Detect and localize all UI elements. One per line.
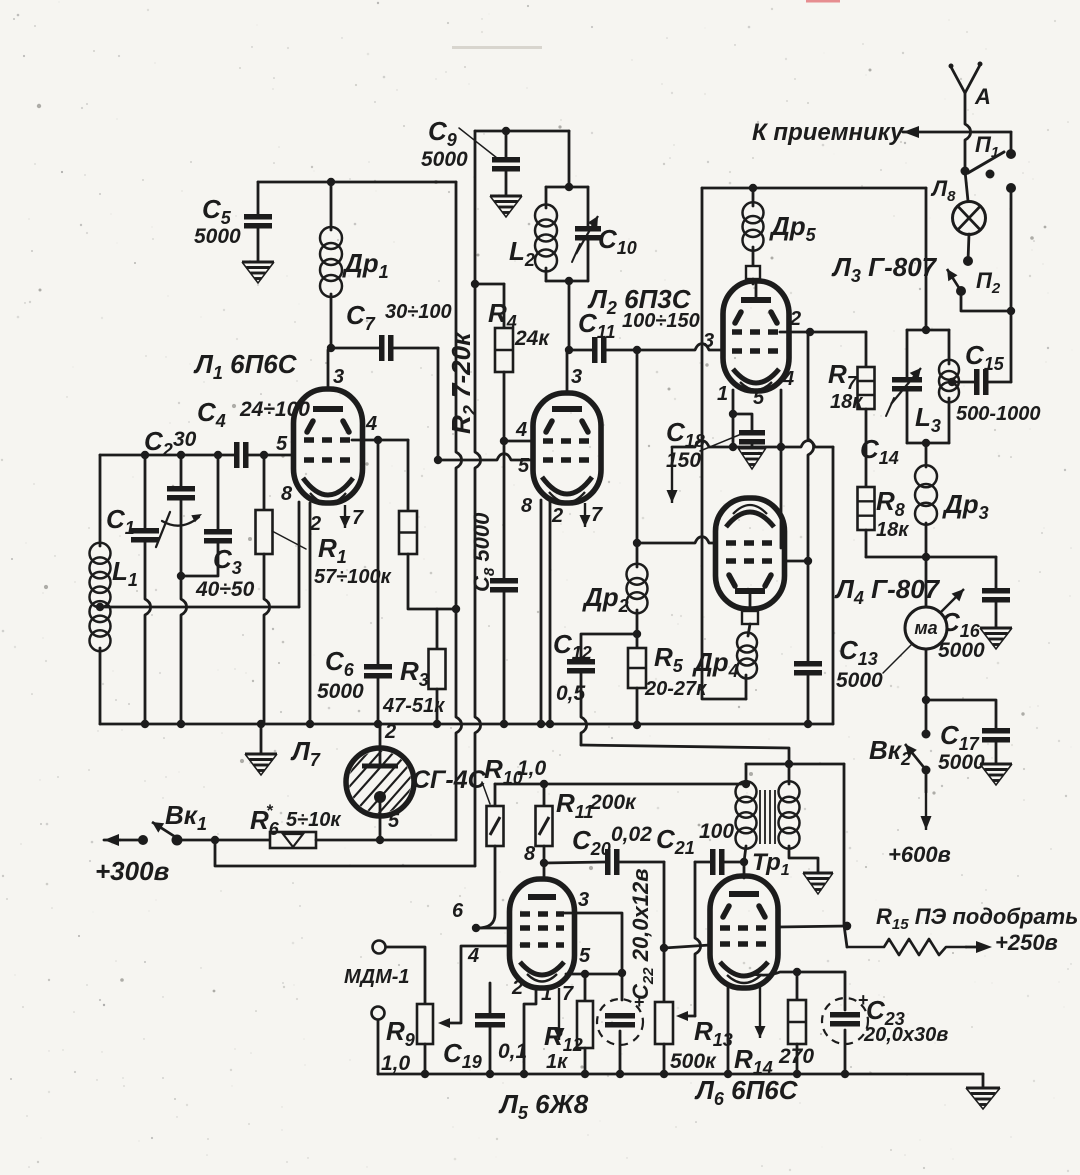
wire B+ riser x844 (844, 764, 847, 947)
grid2 wire Л4 (784, 560, 808, 563)
pin 2 wire Л2 (549, 502, 552, 724)
resistor R15 zigzag (847, 939, 966, 955)
ground (980, 763, 1012, 766)
grid bus Л1 (100, 454, 234, 457)
svg-text:0,5: 0,5 (556, 682, 586, 705)
svg-text:4: 4 (515, 419, 527, 441)
audio ground bus (378, 1073, 983, 1076)
svg-text:40÷50: 40÷50 (195, 578, 255, 601)
tube Л7 СГ-4С (379, 724, 382, 749)
wire R7-R8 (865, 409, 868, 487)
svg-text:6: 6 (452, 900, 464, 922)
node R2/R3 junction (452, 605, 460, 613)
svg-text:+600в: +600в (888, 842, 951, 867)
svg-text:А: А (974, 84, 991, 109)
svg-text:1: 1 (541, 983, 552, 1005)
cathode mid bus (100, 606, 299, 609)
coil L1 (99, 455, 102, 546)
svg-text:2: 2 (511, 977, 523, 999)
ground (260, 724, 263, 754)
capacitor C20 (544, 862, 605, 863)
svg-text:24к: 24к (514, 327, 550, 350)
pin4 wire Л3 to Л4 (780, 390, 783, 548)
tube Л2 6П3С (533, 393, 601, 503)
tube Л3 Г-807 (723, 281, 789, 391)
svg-text:3: 3 (571, 366, 582, 388)
svg-text:7: 7 (562, 983, 574, 1005)
secondary to ground (789, 846, 818, 873)
capacitor C7 (331, 347, 379, 350)
svg-text:МДМ-1: МДМ-1 (344, 966, 410, 988)
svg-text:СГ-4С: СГ-4С (412, 766, 487, 794)
switch П1 (961, 167, 970, 176)
svg-text:+300в: +300в (95, 856, 170, 886)
capacitor C3 (217, 455, 220, 529)
grid input wire Л5 (444, 946, 510, 1023)
svg-text:4: 4 (467, 945, 479, 967)
capacitor C18 (739, 430, 765, 436)
screen line x808 upper (808, 332, 814, 661)
wire R4 jog (475, 283, 504, 286)
svg-text:Л6 6П6С: Л6 6П6С (694, 1075, 799, 1109)
svg-text:2: 2 (551, 505, 563, 527)
wire Вк1 to R6 (177, 839, 270, 842)
wire Л4 anode feed x702 (702, 188, 746, 699)
cathode wire Л5 (566, 973, 622, 976)
svg-text:5000: 5000 (317, 680, 364, 703)
svg-text:18к: 18к (830, 391, 863, 413)
wire to ground (982, 1074, 985, 1088)
capacitor C11 (569, 349, 592, 352)
capacitor C21 (695, 861, 710, 864)
wire pin6 Л5 (476, 927, 510, 930)
resistor R10 1.0 (494, 784, 497, 806)
svg-text:1к: 1к (546, 1051, 568, 1073)
ground (966, 1087, 1000, 1090)
svg-text:1,0: 1,0 (517, 757, 547, 780)
choke Др1 (330, 182, 333, 230)
node L3 tap (948, 378, 956, 386)
plate supply rail y188 (702, 187, 926, 190)
grid wire Л6 (664, 945, 710, 948)
screen wire Л6 (778, 926, 847, 927)
svg-text:30: 30 (173, 428, 197, 451)
svg-text:2: 2 (384, 721, 396, 743)
wire П2 to C15 branch (961, 291, 1011, 311)
svg-text:3: 3 (578, 889, 589, 911)
pins 1/5 Л3 to C18 (732, 390, 735, 447)
svg-text:1,0: 1,0 (381, 1052, 411, 1075)
choke Др5 (752, 188, 755, 206)
tube Л6 6П6С (743, 862, 746, 878)
pins 1-2 wire Л5 (524, 988, 536, 1074)
+600в feed arrow (925, 770, 928, 792)
lamp Л8 (965, 171, 968, 201)
Тр1 B+ rail (746, 763, 844, 766)
node Др2/R5/C12 (633, 630, 641, 638)
wire C5/Др1 top feed (258, 181, 456, 184)
capacitor C12 (581, 634, 637, 659)
node L1 tap (96, 603, 104, 611)
C10 tuning arrow (576, 216, 598, 254)
electrolytic C22 (621, 973, 624, 1000)
choke Др4 (748, 624, 750, 636)
pin 8 wire Л2 (540, 500, 543, 724)
svg-text:150: 150 (666, 449, 701, 472)
svg-text:5000: 5000 (421, 148, 468, 171)
wire tank to C11 (568, 281, 571, 350)
main ground bus (100, 723, 833, 726)
node Др1/C7/pin3 (327, 344, 335, 352)
wire screen-supply riser x456 (456, 182, 462, 840)
wire C7 drop (437, 348, 440, 460)
lower rail y866 (215, 840, 475, 866)
electrolytic C23 (844, 972, 847, 1010)
pin 7 arrow Л2 (584, 503, 586, 527)
tube Л4 Г-807 inverted (716, 498, 785, 609)
meter ма (925, 557, 928, 607)
svg-text:5: 5 (579, 945, 591, 967)
pin 2 wire Л6 (727, 987, 730, 1074)
resistor R9 1.0 potentiometer (373, 941, 386, 954)
ground (803, 872, 833, 875)
ground (980, 627, 1012, 630)
capacitor C6 (377, 440, 380, 664)
resistor R4 24k (503, 284, 506, 328)
capacitor C5 (257, 182, 260, 214)
capacitor C15 (952, 381, 974, 384)
svg-text:7: 7 (591, 504, 603, 526)
audio B+ rail (495, 783, 746, 786)
svg-text:8: 8 (524, 843, 536, 865)
svg-text:5000: 5000 (938, 639, 985, 662)
svg-text:200к: 200к (589, 791, 637, 814)
svg-text:5: 5 (753, 387, 765, 409)
+300в feed arrow (120, 839, 143, 842)
svg-text:Л3 Г-807: Л3 Г-807 (831, 252, 938, 286)
ground (242, 261, 274, 264)
rail y557 (866, 556, 996, 559)
svg-text:5÷10к: 5÷10к (286, 809, 341, 831)
node Л6 anode / Тр1 (740, 858, 748, 866)
wire C9 drop / lower rail riser (475, 131, 481, 866)
choke Др2 line from C11 (636, 350, 639, 543)
svg-text:5: 5 (518, 455, 530, 477)
wire rail447 to ground bus (832, 447, 835, 724)
switch Вк2 (925, 700, 928, 734)
capacitor C19 (489, 983, 492, 1013)
node R4/C8/pin4 (500, 437, 508, 445)
svg-text:8: 8 (521, 495, 533, 517)
svg-text:3: 3 (703, 330, 714, 352)
pin 4 wire (352, 439, 408, 442)
wire to C17 (926, 700, 996, 728)
resistor R11 200k (543, 784, 546, 806)
riser to C14 tank (925, 188, 928, 330)
capacitor C13 (794, 661, 822, 667)
svg-text:270: 270 (778, 1045, 814, 1068)
svg-text:20-27к: 20-27к (644, 678, 707, 700)
wire meter to Вк2 (925, 649, 928, 700)
svg-text:С8 5000: С8 5000 (469, 512, 498, 592)
microphone МДМ-1 terminal (372, 1007, 385, 1020)
svg-text:4: 4 (782, 368, 794, 390)
resistor R14 270 (796, 972, 799, 1000)
svg-text:ма: ма (914, 618, 937, 638)
pin 2 wire (309, 503, 312, 724)
svg-text:Л5 6Ж8: Л5 6Ж8 (498, 1089, 589, 1123)
capacitor C9 (505, 131, 508, 157)
cathode wire Л6 (752, 972, 845, 975)
antenna A (951, 67, 965, 93)
svg-text:57÷100к: 57÷100к (314, 566, 392, 588)
svg-text:5000: 5000 (938, 751, 985, 774)
svg-text:Л2 6П3С: Л2 6П3С (587, 284, 692, 318)
tube Л1 6П6С (294, 389, 363, 503)
svg-text:4: 4 (365, 413, 377, 435)
resistor R13 500k potentiometer (655, 1002, 673, 1044)
resistor R5 20-27k (636, 634, 639, 648)
svg-text:8: 8 (281, 483, 293, 505)
ground (738, 447, 766, 450)
wire to receiver (903, 131, 1011, 134)
switch П2 (968, 234, 969, 261)
capacitor C4 (234, 442, 240, 468)
resistor R8 18k (858, 487, 875, 530)
switch Вк1 (138, 835, 148, 845)
down arrow (671, 447, 673, 503)
resistor R2 7-20k (407, 440, 410, 511)
resistor R6 5-10k tapped (270, 832, 316, 848)
svg-text:2: 2 (789, 308, 801, 330)
variable capacitor C2 (180, 455, 183, 486)
svg-text:30÷100: 30÷100 (385, 301, 452, 323)
wire Л2 grid (pin5) (438, 454, 533, 460)
resistor R3 47-51k (436, 609, 439, 649)
svg-text:20,0х30в: 20,0х30в (863, 1024, 948, 1046)
capacitor C1 (144, 455, 147, 528)
resistor R7 18k (865, 332, 868, 367)
cathode rail y447 (672, 441, 833, 447)
svg-text:100: 100 (699, 820, 734, 843)
wire C9 top feed (475, 130, 569, 133)
svg-text:5: 5 (276, 433, 288, 455)
svg-text:5: 5 (388, 810, 400, 832)
svg-text:500-1000: 500-1000 (956, 403, 1041, 425)
svg-text:1: 1 (717, 383, 728, 405)
svg-text:5000: 5000 (194, 225, 241, 248)
grid wire Л4 row1 (637, 537, 716, 543)
svg-text:500к: 500к (670, 1050, 717, 1073)
svg-text:3: 3 (333, 366, 344, 388)
tank C14/L3 (907, 329, 949, 332)
wire Л2 pin4 (504, 440, 533, 443)
svg-text:К приемнику: К приемнику (752, 119, 905, 146)
wire C15 riser x1011 (1010, 186, 1013, 382)
svg-text:2: 2 (309, 513, 321, 535)
pin 7 arrow (344, 505, 346, 528)
svg-text:5000: 5000 (836, 669, 883, 692)
capacitor C17 (982, 728, 1010, 734)
tube Л5 6Ж8 (543, 863, 546, 880)
resistor R1 57-100k (263, 455, 266, 510)
tank L2/C10 (568, 131, 571, 187)
pin2 wire Л3 / R7 feed (780, 331, 866, 334)
transformer Тр1 (745, 764, 748, 784)
svg-text:0,02: 0,02 (611, 823, 652, 846)
capacitor C8 (503, 441, 506, 578)
svg-text:+250в: +250в (995, 930, 1058, 955)
svg-text:7: 7 (352, 507, 364, 529)
resistor R12 1k (584, 974, 587, 1001)
pin 7 arrow Л5 (558, 988, 560, 1040)
wire C12 to Тр1 (581, 745, 789, 764)
node pin8 Л5 (540, 859, 548, 867)
capacitor C16 (995, 557, 998, 588)
svg-text:47-51к: 47-51к (382, 695, 445, 717)
pin 7 arrow Л6 (759, 987, 761, 1038)
svg-text:Л1 6П6С: Л1 6П6С (193, 349, 298, 383)
wire pin3 Л5 (564, 913, 622, 973)
C14 tuning arrow (891, 368, 921, 404)
wire C20 to R13/grid (663, 862, 666, 1002)
ground (490, 195, 522, 198)
choke Др3 (925, 443, 928, 467)
svg-text:18к: 18к (876, 519, 909, 541)
